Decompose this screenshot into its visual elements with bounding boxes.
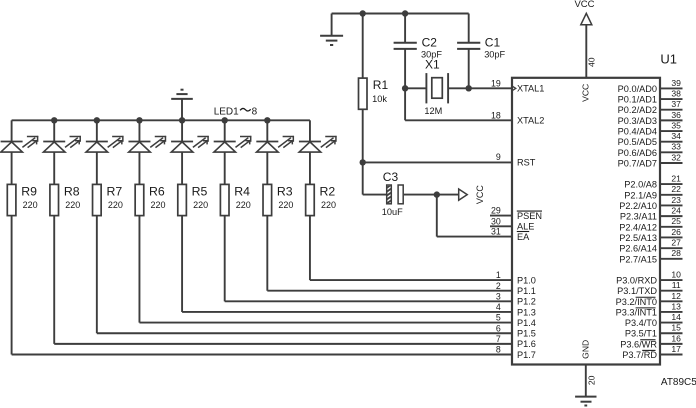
svg-text:R6: R6 <box>149 185 165 199</box>
svg-text:P0.2/AD2: P0.2/AD2 <box>618 105 657 115</box>
svg-text:P2.5/A13: P2.5/A13 <box>619 233 657 243</box>
svg-text:11: 11 <box>672 280 681 290</box>
svg-text:P2.3/A11: P2.3/A11 <box>620 212 657 222</box>
svg-text:10uF: 10uF <box>382 207 403 217</box>
svg-text:220: 220 <box>65 200 80 210</box>
svg-text:30: 30 <box>491 216 501 226</box>
svg-text:C3: C3 <box>383 170 399 184</box>
svg-text:P2.2/A10: P2.2/A10 <box>619 201 657 211</box>
svg-text:33: 33 <box>671 142 681 152</box>
svg-text:36: 36 <box>671 110 681 120</box>
svg-text:220: 220 <box>278 200 293 210</box>
svg-text:9: 9 <box>496 152 501 162</box>
svg-text:3: 3 <box>496 291 501 301</box>
svg-text:15: 15 <box>671 323 681 333</box>
svg-text:12M: 12M <box>424 106 442 116</box>
svg-text:P1.7: P1.7 <box>517 350 536 360</box>
svg-text:R5: R5 <box>192 185 208 199</box>
svg-text:26: 26 <box>671 227 681 237</box>
svg-text:R7: R7 <box>106 185 122 199</box>
svg-text:28: 28 <box>671 248 681 258</box>
svg-text:R2: R2 <box>320 185 336 199</box>
svg-text:R4: R4 <box>234 185 250 199</box>
svg-text:220: 220 <box>23 200 38 210</box>
svg-text:VCC: VCC <box>574 0 594 10</box>
svg-text:P0.4/AD4: P0.4/AD4 <box>618 127 657 137</box>
svg-text:10: 10 <box>671 270 681 280</box>
svg-text:P3.7/RD: P3.7/RD <box>622 350 657 360</box>
svg-text:7: 7 <box>496 334 501 344</box>
svg-text:P1.2: P1.2 <box>517 297 536 307</box>
svg-text:VCC: VCC <box>580 84 590 102</box>
svg-text:P0.5/AD5: P0.5/AD5 <box>618 137 657 147</box>
svg-text:1: 1 <box>496 270 501 280</box>
svg-text:30pF: 30pF <box>484 50 505 60</box>
svg-text:XTAL1: XTAL1 <box>517 84 544 94</box>
svg-text:13: 13 <box>671 301 681 311</box>
svg-text:4: 4 <box>496 302 501 312</box>
svg-text:220: 220 <box>193 200 208 210</box>
svg-text:24: 24 <box>671 206 681 216</box>
svg-text:P0.6/AD6: P0.6/AD6 <box>618 148 657 158</box>
svg-text:R1: R1 <box>373 78 389 92</box>
svg-text:P0.7/AD7: P0.7/AD7 <box>618 158 657 168</box>
svg-text:P1.1: P1.1 <box>517 286 536 296</box>
svg-text:EA: EA <box>517 232 530 242</box>
svg-text:AT89C51: AT89C51 <box>661 377 696 388</box>
svg-text:34: 34 <box>671 131 681 141</box>
svg-text:P1.3: P1.3 <box>517 307 536 317</box>
svg-text:C2: C2 <box>422 36 438 50</box>
svg-text:P0.1/AD1: P0.1/AD1 <box>618 95 657 105</box>
svg-text:6: 6 <box>496 323 501 333</box>
svg-text:P2.4/A12: P2.4/A12 <box>619 222 657 232</box>
svg-text:P3.4/T0: P3.4/T0 <box>625 318 657 328</box>
svg-text:37: 37 <box>671 99 681 109</box>
svg-text:32: 32 <box>671 152 681 162</box>
svg-text:35: 35 <box>671 120 681 130</box>
svg-text:18: 18 <box>491 110 501 120</box>
svg-text:P2.0/A8: P2.0/A8 <box>624 180 657 190</box>
svg-text:8: 8 <box>252 106 258 117</box>
svg-text:25: 25 <box>671 216 681 226</box>
svg-text:P0.3/AD3: P0.3/AD3 <box>618 116 657 126</box>
svg-text:40: 40 <box>586 57 596 67</box>
svg-text:P3.2/INT0: P3.2/INT0 <box>616 297 657 307</box>
svg-text:220: 220 <box>236 200 251 210</box>
svg-text:27: 27 <box>671 238 681 248</box>
svg-text:22: 22 <box>671 184 681 194</box>
svg-text:16: 16 <box>671 333 681 343</box>
svg-text:19: 19 <box>491 79 501 89</box>
svg-text:XTAL2: XTAL2 <box>517 116 544 126</box>
svg-text:VCC: VCC <box>475 185 485 205</box>
svg-text:R8: R8 <box>64 185 80 199</box>
svg-text:P2.1/A9: P2.1/A9 <box>624 190 657 200</box>
svg-text:10k: 10k <box>372 94 387 104</box>
svg-text:5: 5 <box>496 313 501 323</box>
svg-text:12: 12 <box>671 291 681 301</box>
svg-text:220: 220 <box>150 200 165 210</box>
svg-text:GND: GND <box>580 340 590 359</box>
svg-text:29: 29 <box>491 206 501 216</box>
svg-text:U1: U1 <box>660 52 677 67</box>
svg-text:39: 39 <box>671 78 681 88</box>
svg-text:P2.6/A14: P2.6/A14 <box>619 244 657 254</box>
svg-text:P1.5: P1.5 <box>517 329 536 339</box>
svg-text:ALE: ALE <box>517 222 534 232</box>
svg-text:P3.0/RXD: P3.0/RXD <box>616 276 657 286</box>
svg-text:P3.3/INT1: P3.3/INT1 <box>616 307 657 317</box>
svg-text:P1.6: P1.6 <box>517 339 536 349</box>
svg-text:R3: R3 <box>277 185 293 199</box>
svg-text:C1: C1 <box>485 36 501 50</box>
svg-text:X1: X1 <box>425 57 440 71</box>
svg-text:2: 2 <box>496 281 501 291</box>
svg-text:20: 20 <box>586 375 596 385</box>
svg-text:P0.0/AD0: P0.0/AD0 <box>618 84 657 94</box>
svg-text:P3.6/WR: P3.6/WR <box>620 339 657 349</box>
svg-text:31: 31 <box>491 227 501 237</box>
svg-text:23: 23 <box>671 195 681 205</box>
svg-text:P1.4: P1.4 <box>517 318 536 328</box>
svg-text:21: 21 <box>671 174 681 184</box>
svg-text:17: 17 <box>671 344 681 354</box>
svg-text:38: 38 <box>671 88 681 98</box>
svg-text:220: 220 <box>321 200 336 210</box>
svg-text:14: 14 <box>671 312 681 322</box>
svg-text:PSEN: PSEN <box>517 211 542 221</box>
svg-text:R9: R9 <box>21 185 37 199</box>
svg-text:P1.0: P1.0 <box>517 275 536 285</box>
svg-text:P3.5/T1: P3.5/T1 <box>625 329 657 339</box>
svg-text:P3.1/TXD: P3.1/TXD <box>617 286 657 296</box>
svg-text:220: 220 <box>108 200 123 210</box>
svg-text:RST: RST <box>517 158 536 168</box>
svg-text:8: 8 <box>496 345 501 355</box>
svg-text:LED1: LED1 <box>214 106 239 117</box>
svg-text:P2.7/A15: P2.7/A15 <box>619 254 657 264</box>
